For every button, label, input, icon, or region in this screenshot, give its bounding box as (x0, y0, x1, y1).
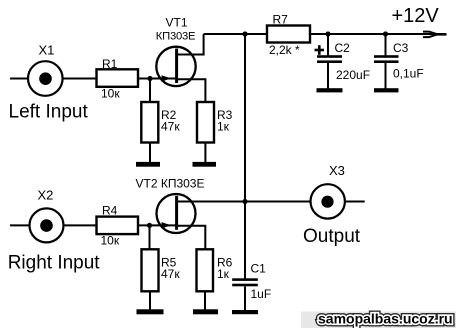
transistor VT1 (156, 47, 195, 86)
resistor R7 (267, 26, 310, 43)
svg-text:47к: 47к (161, 267, 180, 281)
svg-text:1к: 1к (217, 119, 230, 133)
svg-text:VT1: VT1 (166, 16, 188, 30)
wire (204, 143, 206, 163)
wire (149, 143, 151, 163)
ground (374, 88, 399, 92)
wire (177, 201, 365, 203)
label + polarity (315, 45, 325, 55)
wire (10, 78, 97, 80)
ground (136, 162, 160, 167)
svg-text:КП303Е: КП303Е (156, 31, 196, 43)
wire (149, 225, 151, 249)
wire (138, 78, 177, 80)
svg-text:220uF: 220uF (336, 68, 370, 82)
svg-text:Left Input: Left Input (9, 101, 89, 122)
wire (385, 63, 387, 89)
svg-text:0,1uF: 0,1uF (393, 67, 424, 81)
connector X2 (30, 208, 64, 242)
wire (138, 224, 177, 226)
power +12V arrow (423, 32, 447, 37)
node C3 junction (383, 31, 388, 36)
wire (149, 79, 151, 103)
svg-text:C3: C3 (393, 41, 409, 55)
ground (232, 310, 258, 314)
svg-text:R7: R7 (273, 13, 289, 27)
ground (193, 309, 218, 314)
svg-text:X1: X1 (39, 43, 55, 58)
wire (327, 63, 329, 89)
svg-text:X2: X2 (38, 188, 54, 203)
svg-text:+12V: +12V (392, 5, 440, 27)
svg-text:47к: 47к (161, 119, 180, 133)
wire (10, 224, 97, 226)
svg-text:10к: 10к (101, 234, 120, 248)
ground (193, 162, 217, 167)
svg-text:R4: R4 (102, 204, 118, 218)
resistor R2 (141, 102, 158, 143)
wire (327, 34, 329, 55)
resistor R3 (197, 102, 214, 143)
wire (204, 33, 441, 35)
wire (177, 226, 206, 250)
node VT2 gate junction (147, 223, 152, 228)
svg-text:2,2k *: 2,2k * (269, 43, 300, 57)
resistor R6 (197, 249, 214, 291)
svg-text:1uF: 1uF (251, 287, 272, 301)
transistor VT2 (157, 194, 196, 233)
svg-text:1к: 1к (217, 267, 230, 281)
ground (317, 88, 343, 92)
node C2 junction (325, 31, 330, 36)
wire (177, 34, 204, 55)
ground (137, 309, 164, 314)
resistor R5 (142, 249, 159, 291)
capacitor C3 (374, 55, 399, 63)
wire (244, 34, 246, 279)
connector X1 (28, 61, 63, 96)
svg-text:samopalbas.ucoz.ru: samopalbas.ucoz.ru (318, 311, 453, 327)
svg-text:Right Input: Right Input (8, 253, 101, 274)
svg-text:10к: 10к (101, 87, 120, 101)
wire (204, 291, 206, 310)
node output junction (242, 199, 247, 204)
capacitor C2 (317, 55, 342, 63)
svg-text:R1: R1 (102, 57, 118, 71)
node VT1 gate junction (147, 76, 152, 81)
capacitor C1 (232, 278, 258, 286)
wire (149, 291, 151, 310)
svg-text:C1: C1 (251, 262, 267, 276)
svg-text:VT2 КП303Е: VT2 КП303Е (136, 176, 205, 190)
connector X3 (311, 184, 345, 218)
resistor R4 (97, 217, 139, 235)
node rail junction (242, 31, 247, 36)
wire (177, 79, 206, 102)
watermark samopalbas.ucoz.ru (301, 311, 456, 328)
svg-text:X3: X3 (329, 163, 345, 178)
resistor R1 (97, 69, 139, 87)
svg-text:Output: Output (303, 226, 361, 247)
svg-text:C2: C2 (335, 41, 351, 55)
wire (385, 34, 387, 55)
wire (244, 286, 246, 310)
